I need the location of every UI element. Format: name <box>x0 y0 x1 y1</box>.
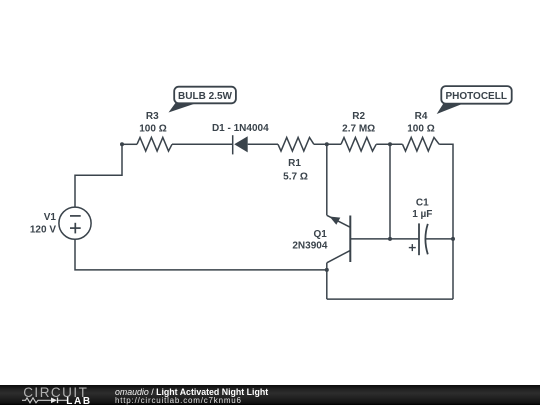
CircuitLab logo wordmark CIRCUIT <box>23 385 88 400</box>
svg-text:100 Ω: 100 Ω <box>139 124 166 135</box>
node F (emitter junction) <box>325 268 329 272</box>
svg-text:R1: R1 <box>288 158 301 169</box>
wire left drop from node <box>75 144 122 207</box>
wire bottom rail <box>327 298 453 300</box>
svg-text:5.7 Ω: 5.7 Ω <box>283 172 308 183</box>
resistor R4 <box>403 138 440 152</box>
svg-text:PHOTOCELL: PHOTOCELL <box>445 91 506 102</box>
svg-text:D1 - 1N4004: D1 - 1N4004 <box>212 123 269 134</box>
node D (base junction) <box>388 237 392 241</box>
svg-text:2N3904: 2N3904 <box>292 241 327 252</box>
wire R4 to right corner <box>439 144 453 299</box>
node A (left top) <box>120 142 124 146</box>
svg-text:R2: R2 <box>352 111 365 122</box>
wire base to capacitor <box>350 238 419 240</box>
node B (R1-R2 junction) <box>325 142 329 146</box>
logo resistor zigzag <box>22 397 51 402</box>
voltage source V1 <box>59 207 91 239</box>
wire V1 bottom to emitter node <box>75 239 327 270</box>
wire R2 to R4 <box>376 143 402 145</box>
resistor R3 <box>137 138 172 152</box>
wire collector drop <box>326 144 328 215</box>
wire R3 to D1 <box>172 143 233 145</box>
callout PHOTOCELL <box>437 86 512 114</box>
wire R2 node drop to base <box>389 144 391 239</box>
transistor Q1 <box>327 215 351 299</box>
wire top rail dot-to-R3 <box>122 143 137 145</box>
resistor R2 <box>341 138 376 152</box>
node E (cap right junction) <box>451 237 455 241</box>
svg-text:BULB 2.5W: BULB 2.5W <box>178 91 232 102</box>
diode D1 <box>233 135 248 154</box>
svg-text:100 Ω: 100 Ω <box>407 124 434 135</box>
svg-text:C1: C1 <box>416 198 429 209</box>
svg-text:Q1: Q1 <box>313 229 327 240</box>
node C (R2-R4 junction) <box>388 142 392 146</box>
svg-text:V1: V1 <box>44 212 57 223</box>
footer title line <box>115 387 268 397</box>
svg-text:2.7 MΩ: 2.7 MΩ <box>342 124 375 135</box>
footer bar <box>0 385 540 406</box>
callout BULB 2.5W <box>169 87 236 113</box>
wire R1 to R2 <box>314 143 341 145</box>
svg-text:1 µF: 1 µF <box>412 209 432 220</box>
svg-text:R3: R3 <box>146 111 159 122</box>
capacitor C1 <box>409 223 453 255</box>
svg-text:R4: R4 <box>415 111 428 122</box>
resistor R1 <box>278 138 314 152</box>
wire D1 to R1 <box>248 143 278 145</box>
footer url line <box>115 396 242 405</box>
svg-text:120 V: 120 V <box>30 224 56 235</box>
logo diode <box>51 397 57 403</box>
CircuitLab logo schematic line + LAB <box>22 397 92 406</box>
